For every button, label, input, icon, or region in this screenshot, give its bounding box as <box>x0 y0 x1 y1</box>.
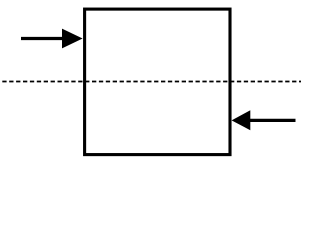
box (control volume) <box>85 9 230 155</box>
left input arrowhead <box>62 29 83 49</box>
right input arrow shaft <box>249 119 296 122</box>
left input arrow shaft <box>21 37 65 40</box>
right input arrowhead <box>232 110 251 130</box>
dashed center line <box>2 81 301 83</box>
